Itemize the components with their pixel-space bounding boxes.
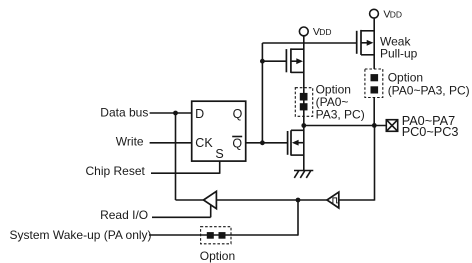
svg-text:PA3, PC): PA3, PC) (316, 107, 365, 121)
svg-text:Data bus: Data bus (100, 106, 148, 120)
svg-text:Write: Write (116, 135, 144, 149)
svg-text:DD: DD (390, 9, 402, 19)
svg-text:Pull-up: Pull-up (380, 46, 418, 60)
svg-text:Option: Option (200, 249, 235, 263)
svg-text:Q: Q (232, 137, 242, 151)
svg-text:D: D (195, 107, 204, 121)
svg-text:Option: Option (388, 71, 423, 85)
svg-text:System Wake-up (PA only): System Wake-up (PA only) (10, 228, 152, 242)
svg-text:PC0~PC3: PC0~PC3 (402, 125, 459, 139)
svg-text:S: S (215, 147, 223, 161)
svg-text:DD: DD (319, 27, 331, 37)
svg-text:Chip Reset: Chip Reset (86, 164, 146, 178)
svg-text:CK: CK (195, 136, 213, 150)
svg-text:Read I/O: Read I/O (100, 208, 148, 222)
svg-text:(PA0~PA3, PC): (PA0~PA3, PC) (388, 84, 470, 98)
svg-text:Q: Q (233, 107, 243, 121)
